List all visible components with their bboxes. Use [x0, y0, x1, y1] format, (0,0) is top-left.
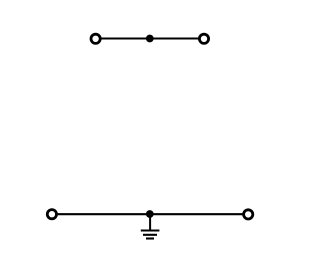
wire (top rail) — [96, 37, 204, 39]
junction (bottom rail center) — [146, 210, 154, 218]
terminal (bottom left, open circle) — [47, 210, 56, 219]
junction (top rail center) — [146, 35, 154, 43]
terminal (bottom right, open circle) — [244, 210, 253, 219]
wire (ground stem) — [149, 214, 151, 231]
ground — [141, 231, 160, 239]
terminal (top left, open circle) — [91, 34, 100, 43]
terminal (top right, open circle) — [199, 34, 208, 43]
wire (bottom rail) — [52, 213, 248, 215]
